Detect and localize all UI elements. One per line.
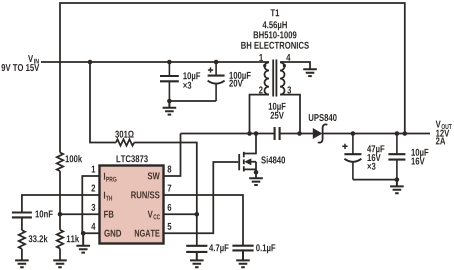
label C4 4.7uF bbox=[209, 244, 228, 253]
wire 100k to 11k bbox=[59, 171, 61, 230]
U1 pin number 4 bbox=[91, 223, 95, 230]
wire pin2 ITH to compensation bbox=[22, 195, 100, 212]
wire 33.2k to ground bbox=[21, 249, 23, 260]
label VOUT bbox=[436, 121, 452, 129]
label T1 inductance bbox=[263, 21, 287, 30]
U1 pin number 3 bbox=[91, 204, 95, 211]
label Q1 Si4840 bbox=[261, 156, 285, 163]
label D1 UPS840 bbox=[309, 114, 337, 121]
label T1 pin 2 bbox=[259, 86, 263, 93]
node dot 100uF top bbox=[214, 60, 219, 65]
plus sign of 47uF bbox=[342, 144, 347, 149]
U1 pin 8 name SW bbox=[148, 172, 160, 179]
node dot T1 pin2 on switch line bbox=[247, 131, 252, 136]
U1 pin number 5 bbox=[168, 223, 172, 230]
U1 pin 6 name VCC bbox=[148, 211, 160, 220]
ground at T1 pin4 bbox=[303, 69, 317, 76]
ground under 11k bbox=[53, 260, 67, 267]
wire 10nF to 33.2k bbox=[21, 217, 23, 230]
wire switch line SW to coupling cap bbox=[181, 133, 275, 135]
label C6 47uF 16V x3 bbox=[367, 145, 384, 169]
wire 301ohm to VCC column bbox=[134, 143, 197, 246]
node dot 47uF top bbox=[351, 131, 356, 136]
label T1 vendor bbox=[241, 42, 309, 49]
wire T1 pin4 to ground bbox=[280, 62, 310, 69]
label R2 100k bbox=[65, 155, 82, 162]
label VIN bbox=[28, 55, 39, 63]
label R3 33.2k bbox=[29, 235, 48, 242]
wire diode cathode to VOUT bbox=[323, 133, 431, 135]
label R1 301ohm bbox=[115, 131, 134, 138]
label C5 0.1uF bbox=[256, 244, 275, 253]
wire top feedback rail from VOUT node to 100k bbox=[60, 3, 405, 153]
label U1 LTC3873 bbox=[117, 155, 148, 162]
op-amp U1 LTC3873 body bbox=[100, 166, 164, 244]
node dot output gnd join bbox=[395, 177, 400, 182]
label C8 10nF bbox=[35, 210, 52, 217]
ground under IC pin4 bbox=[76, 233, 90, 252]
ground under output caps bbox=[390, 180, 404, 194]
wire T1 pin2 to switch node bbox=[250, 95, 270, 134]
node dot 10uF16V top bbox=[395, 131, 400, 136]
ground under MOSFET source bbox=[249, 178, 263, 185]
ground under 0.1uF bbox=[236, 250, 250, 267]
U1 pin 7 name RUN/SS bbox=[131, 191, 159, 198]
label C3 10uF 25V bbox=[269, 103, 286, 119]
U1 pin number 7 bbox=[168, 185, 172, 192]
label C1 10uF x3 bbox=[183, 72, 200, 89]
transformer T1 phasing dot left bbox=[263, 64, 266, 67]
U1 pin number 2 bbox=[91, 185, 95, 192]
capacitor C5 0.1uF body bbox=[232, 246, 253, 251]
capacitor C3 10uF 25V coupling body bbox=[275, 127, 280, 140]
wire pin3 FB stub bbox=[60, 213, 100, 215]
U1 pin number 8 bbox=[168, 166, 172, 173]
transistor Q1 Si4840 gate bar bbox=[238, 154, 240, 170]
transistor Q1 channel segments bbox=[243, 152, 245, 172]
wire coupling cap to diode bbox=[280, 133, 313, 135]
wire pin7 RUN/SS to 0.1uF bbox=[164, 195, 244, 246]
ground under 4.7uF bbox=[190, 252, 204, 267]
node dot MOSFET drain on switch line bbox=[254, 131, 259, 136]
label C2 100uF 20V bbox=[229, 72, 250, 87]
diode D1 UPS840 schottky cathode bar bbox=[318, 124, 328, 142]
wire pin5 NGATE to gate bbox=[164, 162, 239, 233]
U1 pin 4 name GND bbox=[104, 230, 121, 237]
U1 pin 5 name NGATE bbox=[135, 230, 160, 237]
U1 pin 2 name ITH bbox=[104, 192, 112, 201]
ground under 33.2k bbox=[15, 260, 29, 267]
capacitor C1 10uF x3 input bbox=[160, 62, 179, 101]
label R4 11k bbox=[67, 235, 79, 242]
U1 pin number 1 bbox=[92, 166, 96, 173]
node dot source junction bbox=[254, 170, 259, 175]
node VCC junction dot bbox=[195, 212, 200, 217]
transformer T1 primary winding bbox=[264, 62, 269, 94]
capacitor C4 4.7uF body bbox=[186, 246, 207, 252]
transformer T1 phasing dot right bbox=[283, 64, 286, 67]
node dot 10uF top bbox=[167, 60, 172, 65]
node dot VOUT feedback tap bbox=[403, 131, 408, 136]
wire T1 pin3 down to coupling cap line bbox=[280, 95, 300, 134]
resistor R4 11k body bbox=[57, 230, 63, 249]
plus sign of 100uF bbox=[208, 67, 213, 72]
label VIN range bbox=[1, 64, 39, 71]
resistor R2 100k body bbox=[57, 153, 63, 172]
resistor R1 301ohm body bbox=[116, 139, 134, 145]
diode D1 UPS840 anode triangle bbox=[313, 128, 323, 139]
resistor R3 33.2k body bbox=[19, 230, 25, 249]
capacitor C8 10nF body bbox=[12, 213, 32, 218]
U1 pin 3 name FB bbox=[104, 211, 113, 218]
label T1 part number bbox=[254, 31, 297, 38]
node dot input cap join bbox=[167, 99, 172, 104]
label T1 bbox=[270, 9, 279, 16]
transformer T1 core bbox=[273, 60, 276, 97]
wire VIN down to 301ohm bbox=[90, 62, 116, 143]
label C7 10uF 16V bbox=[411, 149, 428, 165]
wire pin4 GND stub bbox=[83, 232, 100, 234]
label VOUT 2A bbox=[436, 137, 445, 144]
label T1 pin 3 bbox=[287, 86, 291, 93]
node dot T1 pin3 on diode line bbox=[297, 131, 302, 136]
wire pin8 SW to switch line bbox=[164, 134, 181, 177]
label VOUT 12V bbox=[436, 130, 449, 137]
node dot GND junction bbox=[81, 231, 86, 236]
transistor Q1 source and body leads bbox=[244, 162, 256, 178]
U1 pin number 6 bbox=[168, 204, 172, 211]
transistor Q1 drain lead bbox=[244, 134, 256, 154]
node VIN junction dot bbox=[88, 60, 93, 65]
capacitor C6 47uF 16V x3 polarized bbox=[344, 134, 361, 180]
transistor Q1 body diode arrow bbox=[244, 158, 251, 165]
wire output cap bottoms join bbox=[353, 179, 397, 181]
capacitor C7 10uF 16V output bbox=[388, 134, 405, 180]
transformer T1 secondary winding bbox=[280, 62, 285, 94]
wire pin6 VCC stub bbox=[164, 213, 197, 215]
U1 pin 1 name IPRG bbox=[104, 173, 117, 182]
wire VIN rail bbox=[41, 61, 269, 63]
ground under input caps bbox=[163, 101, 177, 115]
label T1 pin 4 bbox=[286, 54, 290, 61]
wire joining input cap bottoms bbox=[169, 100, 216, 102]
capacitor C2 100uF 20V polarized bbox=[208, 62, 225, 101]
wire pin1 IPRG to gnd node bbox=[82, 176, 100, 233]
node dot FB bbox=[58, 212, 63, 217]
wire 11k to ground bbox=[59, 248, 61, 260]
label T1 pin 1 bbox=[259, 54, 263, 61]
